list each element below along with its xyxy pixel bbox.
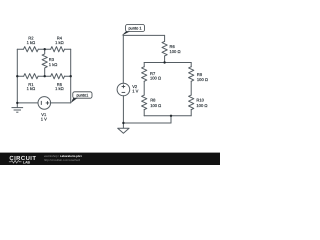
- wire punto1 node to R6 column: [123, 34, 164, 36]
- wire R6 top lead: [164, 35, 166, 41]
- node dot middle-center: [44, 75, 46, 77]
- svg-text:1 kΩ: 1 kΩ: [55, 40, 64, 45]
- svg-text:LAB: LAB: [23, 160, 31, 164]
- V1 polarity marks: [41, 101, 49, 105]
- wire R6 bottom lead: [164, 56, 166, 63]
- wire right branch top lead: [190, 63, 192, 67]
- wire left branch top lead: [143, 63, 145, 67]
- svg-text:1 kΩ: 1 kΩ: [55, 86, 64, 91]
- wire bottom return to V2: [123, 122, 171, 124]
- node dot bottom connector: [170, 115, 172, 117]
- ground (right, triangle style): [118, 128, 129, 133]
- wire R1 to node B: [38, 75, 45, 77]
- node dot middle-left: [16, 75, 18, 77]
- ground (left, earth style): [12, 103, 24, 112]
- node dot middle-right: [70, 75, 72, 77]
- wire left circuit top-left lead: [17, 48, 23, 50]
- wire left edge: [16, 49, 18, 103]
- svg-text:100 Ω: 100 Ω: [196, 103, 207, 108]
- wire R2 to node A: [38, 48, 44, 50]
- wire R10 bottom lead: [190, 110, 192, 116]
- node dot top middle: [44, 48, 46, 50]
- svg-text:1 kΩ: 1 kΩ: [27, 86, 36, 91]
- wire node B to R5: [45, 75, 51, 77]
- wire between R7 and R8: [143, 81, 145, 95]
- svg-text:1 V: 1 V: [41, 117, 47, 122]
- resistor R4: [51, 47, 65, 52]
- wire ground to V1: [17, 102, 38, 104]
- wire between R9 and R10: [190, 81, 192, 95]
- svg-text:http://circuitlab.com/c4a2hw3: http://circuitlab.com/c4a2hw3: [44, 158, 81, 162]
- svg-text:100 Ω: 100 Ω: [150, 103, 161, 108]
- resistor R5: [51, 74, 65, 79]
- wire R5 to right edge: [65, 75, 71, 77]
- wire middle row left lead: [17, 75, 23, 77]
- resistor R1: [24, 74, 38, 79]
- watermark bar: [0, 153, 220, 165]
- node dot R6 bottom: [163, 61, 165, 63]
- V2 polarity marks: [122, 85, 126, 93]
- resistor R8: [142, 95, 147, 110]
- wire R8 bottom lead: [143, 110, 145, 116]
- wire V2 bottom lead: [122, 96, 124, 123]
- wire ground stem: [122, 123, 124, 128]
- svg-text:1 kΩ: 1 kΩ: [49, 62, 58, 67]
- svg-text:100 Ω: 100 Ω: [150, 76, 161, 81]
- wire node A to R4: [45, 48, 51, 50]
- logo resistor zigzag: [9, 161, 22, 164]
- voltage source V1: [38, 97, 51, 110]
- resistor R9: [189, 67, 194, 82]
- svg-text:punto 1: punto 1: [129, 26, 142, 31]
- resistor R6: [162, 41, 167, 55]
- resistor R10: [189, 95, 194, 110]
- svg-text:100 Ω: 100 Ω: [197, 77, 208, 82]
- resistor R7: [142, 67, 147, 82]
- wire R4 to top-right corner: [65, 48, 71, 50]
- svg-text:100 Ω: 100 Ω: [170, 49, 181, 54]
- svg-text:punto1: punto1: [76, 92, 88, 97]
- voltage source V2: [117, 83, 130, 96]
- flag punto1 (left circuit): [71, 92, 92, 103]
- wire right edge: [70, 49, 72, 103]
- wire distribution row: [144, 62, 191, 64]
- node dot V2 bottom: [122, 122, 124, 124]
- resistor R3: [42, 49, 47, 76]
- wire V1 to punto1 node: [51, 102, 71, 104]
- svg-text:R10: R10: [196, 98, 204, 103]
- resistor R2: [24, 47, 39, 52]
- wire bottom row joining branches: [144, 115, 191, 117]
- RIGHT CIRCUIT: [117, 35, 194, 128]
- wire connector down: [170, 116, 172, 123]
- svg-text:1 V: 1 V: [132, 88, 138, 93]
- node dot bottom-left: [16, 102, 18, 104]
- flag punto 1 (right circuit): [122, 25, 145, 36]
- svg-text:1 kΩ: 1 kΩ: [27, 40, 36, 45]
- wire V2 top lead: [122, 35, 124, 83]
